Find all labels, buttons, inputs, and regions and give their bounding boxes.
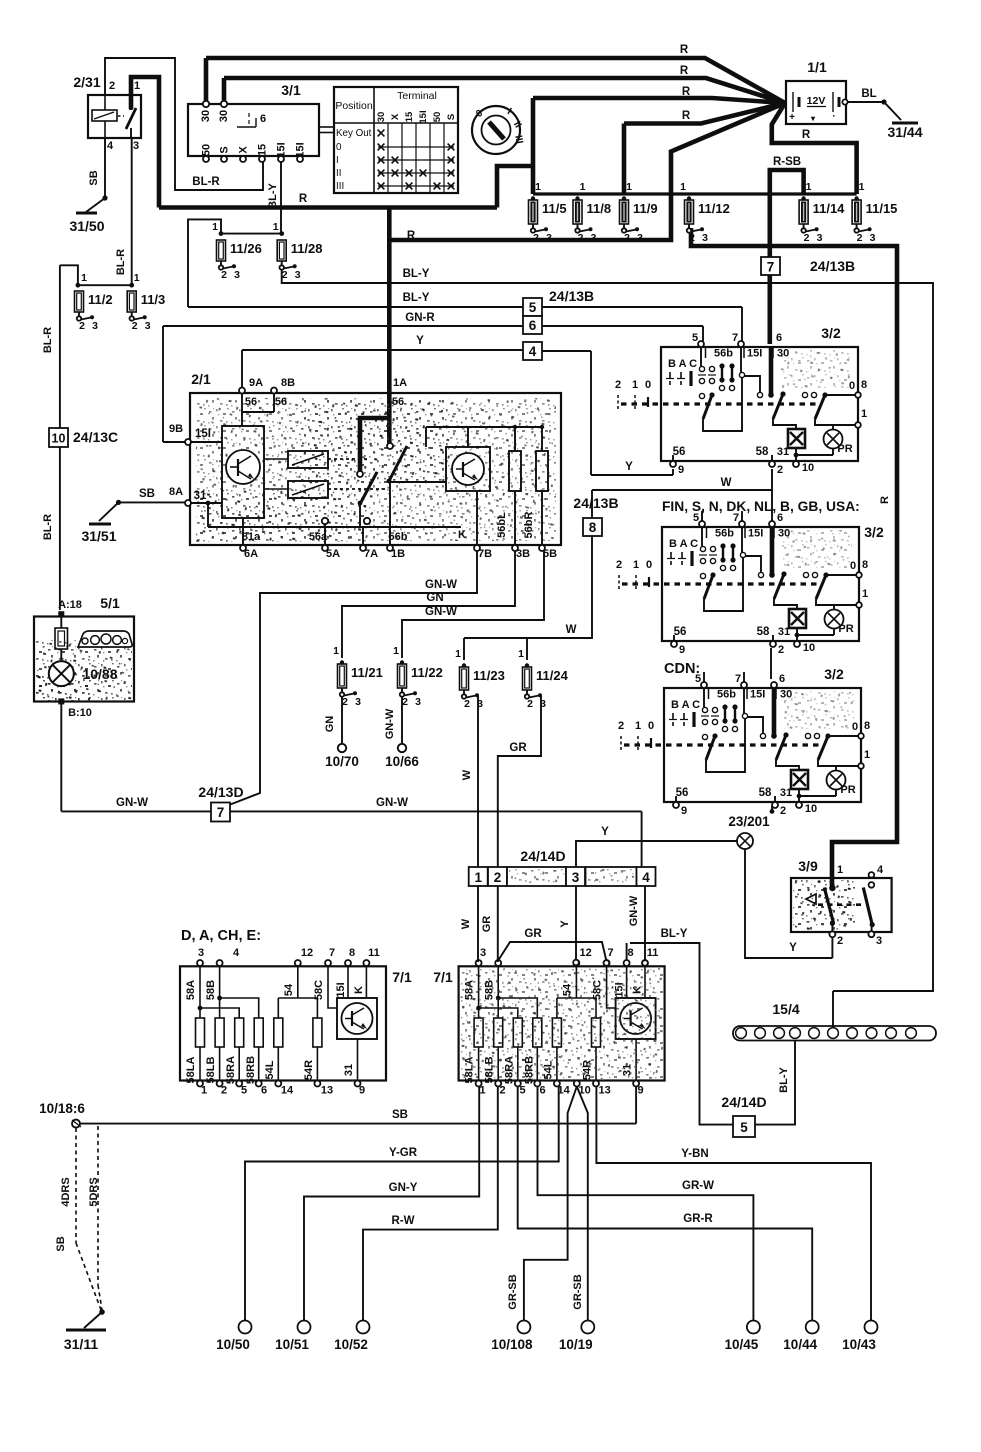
svg-text:GN-R: GN-R xyxy=(405,312,435,324)
svg-text:58: 58 xyxy=(759,787,772,799)
svg-text:3: 3 xyxy=(415,696,421,708)
svg-text:24/13B: 24/13B xyxy=(573,495,618,511)
svg-text:30: 30 xyxy=(200,110,212,122)
svg-text:14: 14 xyxy=(281,1085,294,1097)
svg-text:56bR: 56bR xyxy=(523,511,535,538)
svg-text:9: 9 xyxy=(679,644,685,656)
svg-text:3: 3 xyxy=(572,870,580,885)
svg-text:12V: 12V xyxy=(807,95,826,107)
svg-text:10/51: 10/51 xyxy=(275,1337,309,1352)
svg-text:GN: GN xyxy=(426,592,443,604)
svg-text:2: 2 xyxy=(79,320,85,332)
svg-text:GN-W: GN-W xyxy=(116,797,148,809)
svg-text:13: 13 xyxy=(321,1085,333,1097)
svg-text:31/11: 31/11 xyxy=(64,1336,98,1352)
svg-text:6: 6 xyxy=(261,1085,267,1097)
svg-text:10/19: 10/19 xyxy=(559,1337,593,1352)
svg-text:Y: Y xyxy=(559,920,571,928)
svg-text:2: 2 xyxy=(533,232,539,244)
svg-text:3: 3 xyxy=(145,320,151,332)
svg-text:1: 1 xyxy=(680,181,686,193)
svg-text:13: 13 xyxy=(598,1085,610,1097)
svg-text:BL-Y: BL-Y xyxy=(778,1067,790,1093)
svg-text:8A: 8A xyxy=(169,486,183,498)
svg-text:3/2: 3/2 xyxy=(864,524,884,540)
svg-text:58LA: 58LA xyxy=(185,1056,197,1083)
svg-text:2/1: 2/1 xyxy=(191,371,211,387)
svg-text:1: 1 xyxy=(333,645,339,657)
svg-text:GR-R: GR-R xyxy=(683,1213,713,1225)
svg-text:S: S xyxy=(446,114,457,120)
svg-text:4DRS: 4DRS xyxy=(60,1177,72,1206)
svg-text:GR-W: GR-W xyxy=(682,1180,714,1192)
svg-text:54R: 54R xyxy=(303,1060,315,1080)
svg-text:56b: 56b xyxy=(389,531,408,543)
svg-text:31: 31 xyxy=(778,626,790,638)
svg-text:15: 15 xyxy=(404,111,415,122)
svg-text:2: 2 xyxy=(527,698,533,710)
svg-text:11/14: 11/14 xyxy=(813,201,846,216)
svg-text:3: 3 xyxy=(355,696,361,708)
svg-text:5: 5 xyxy=(529,300,537,315)
svg-text:4: 4 xyxy=(642,870,650,885)
svg-text:11/5: 11/5 xyxy=(542,201,567,216)
svg-text:GR-SB: GR-SB xyxy=(572,1274,584,1310)
svg-text:1: 1 xyxy=(859,181,865,193)
svg-text:4: 4 xyxy=(877,864,884,876)
svg-text:2: 2 xyxy=(578,232,584,244)
svg-text:30: 30 xyxy=(376,112,387,123)
svg-text:BL-R: BL-R xyxy=(42,327,54,353)
svg-text:BL-R: BL-R xyxy=(192,176,220,188)
svg-text:56: 56 xyxy=(676,787,689,799)
svg-text:BL-R: BL-R xyxy=(42,514,54,540)
svg-text:1: 1 xyxy=(806,181,812,193)
svg-text:1: 1 xyxy=(455,648,461,660)
svg-text:R: R xyxy=(802,129,811,141)
svg-text:1: 1 xyxy=(201,1085,207,1097)
svg-text:2: 2 xyxy=(615,379,621,391)
svg-text:9: 9 xyxy=(359,1085,365,1097)
svg-text:3: 3 xyxy=(295,269,301,281)
svg-text:11: 11 xyxy=(368,947,380,959)
svg-text:4: 4 xyxy=(529,344,537,359)
svg-text:10/70: 10/70 xyxy=(325,754,359,769)
svg-text:BL-R: BL-R xyxy=(115,249,127,275)
svg-text:8: 8 xyxy=(589,520,597,535)
svg-text:GN-W: GN-W xyxy=(425,579,457,591)
svg-text:5DRS: 5DRS xyxy=(88,1177,100,1206)
svg-text:8: 8 xyxy=(862,559,868,571)
svg-text:5: 5 xyxy=(520,1085,526,1097)
svg-text:10/45: 10/45 xyxy=(725,1337,759,1352)
svg-text:1: 1 xyxy=(633,559,639,571)
svg-text:56: 56 xyxy=(275,396,287,408)
svg-text:23/201: 23/201 xyxy=(728,814,770,829)
svg-text:R-W: R-W xyxy=(392,1215,415,1227)
svg-text:A:18: A:18 xyxy=(58,599,82,611)
svg-text:K: K xyxy=(353,986,365,994)
svg-text:5: 5 xyxy=(692,332,698,344)
svg-text:6: 6 xyxy=(540,1085,546,1097)
svg-text:GR: GR xyxy=(481,916,493,933)
svg-text:8: 8 xyxy=(864,720,870,732)
svg-text:7: 7 xyxy=(217,805,225,820)
svg-text:·: · xyxy=(832,111,835,122)
svg-text:Y: Y xyxy=(601,826,609,838)
svg-text:15I: 15I xyxy=(418,110,429,123)
svg-text:W: W xyxy=(721,477,732,489)
svg-text:2: 2 xyxy=(494,870,502,885)
svg-text:10/52: 10/52 xyxy=(334,1337,368,1352)
svg-text:24/13D: 24/13D xyxy=(198,784,243,800)
svg-text:7: 7 xyxy=(735,673,741,685)
svg-text:11/2: 11/2 xyxy=(88,292,113,307)
svg-text:R: R xyxy=(682,110,691,122)
svg-text:56b: 56b xyxy=(717,689,736,701)
svg-text:1: 1 xyxy=(81,272,87,284)
svg-text:4: 4 xyxy=(107,140,114,152)
svg-text:1/1: 1/1 xyxy=(807,59,827,75)
svg-text:1: 1 xyxy=(134,80,140,92)
svg-text:10: 10 xyxy=(802,462,814,474)
svg-text:58B: 58B xyxy=(205,980,217,1000)
svg-text:GN-W: GN-W xyxy=(425,606,457,618)
svg-text:B A C: B A C xyxy=(671,699,700,711)
svg-text:11/21: 11/21 xyxy=(351,665,383,680)
svg-text:R-SB: R-SB xyxy=(773,156,801,168)
svg-text:3/9: 3/9 xyxy=(798,858,818,874)
svg-text:1B: 1B xyxy=(391,548,405,560)
svg-text:2: 2 xyxy=(780,805,786,817)
svg-text:9: 9 xyxy=(678,464,684,476)
svg-text:6: 6 xyxy=(776,332,782,344)
svg-text:Y-BN: Y-BN xyxy=(681,1148,708,1160)
svg-text:2: 2 xyxy=(777,464,783,476)
svg-text:7: 7 xyxy=(608,947,614,959)
svg-text:X: X xyxy=(390,113,401,120)
svg-text:R: R xyxy=(682,86,691,98)
svg-text:1: 1 xyxy=(535,181,541,193)
svg-text:50: 50 xyxy=(201,144,213,156)
svg-text:GN-Y: GN-Y xyxy=(389,1182,418,1194)
svg-text:2: 2 xyxy=(132,320,138,332)
svg-text:3: 3 xyxy=(480,947,486,959)
svg-text:3: 3 xyxy=(702,232,708,244)
svg-text:Y: Y xyxy=(789,942,797,954)
svg-text:11/12: 11/12 xyxy=(698,201,730,216)
svg-text:58LB: 58LB xyxy=(205,1056,217,1083)
svg-text:3: 3 xyxy=(876,935,882,947)
svg-text:GN-W: GN-W xyxy=(384,708,396,739)
svg-text:24/13B: 24/13B xyxy=(549,288,594,304)
svg-text:PR: PR xyxy=(837,443,852,455)
svg-text:56a: 56a xyxy=(309,531,328,543)
svg-text:56b: 56b xyxy=(715,528,734,540)
svg-text:31: 31 xyxy=(777,446,789,458)
svg-text:SB: SB xyxy=(55,1236,67,1251)
svg-text:3: 3 xyxy=(870,232,876,244)
svg-text:11/24: 11/24 xyxy=(536,668,569,683)
svg-text:6: 6 xyxy=(260,113,266,125)
svg-text:GR: GR xyxy=(524,928,542,940)
svg-text:0: 0 xyxy=(648,720,654,732)
svg-text:58C: 58C xyxy=(313,980,325,1000)
svg-text:10/44: 10/44 xyxy=(783,1337,817,1352)
svg-text:2: 2 xyxy=(689,232,695,244)
svg-text:3: 3 xyxy=(637,232,643,244)
svg-text:B:10: B:10 xyxy=(68,707,92,719)
svg-text:R: R xyxy=(680,65,689,77)
svg-text:B A C: B A C xyxy=(668,358,697,370)
svg-text:8: 8 xyxy=(349,947,355,959)
svg-text:31/44: 31/44 xyxy=(887,124,922,140)
svg-text:10: 10 xyxy=(803,642,815,654)
svg-text:56: 56 xyxy=(392,396,404,408)
svg-text:SB: SB xyxy=(88,170,100,185)
svg-text:2: 2 xyxy=(282,269,288,281)
svg-text:R: R xyxy=(407,230,416,242)
svg-text:10/88: 10/88 xyxy=(82,666,117,682)
svg-text:0: 0 xyxy=(646,559,652,571)
svg-text:8: 8 xyxy=(628,947,634,959)
svg-text:11/8: 11/8 xyxy=(587,201,612,216)
svg-text:3: 3 xyxy=(817,232,823,244)
svg-text:12: 12 xyxy=(301,947,313,959)
svg-text:1: 1 xyxy=(635,720,641,732)
svg-text:1: 1 xyxy=(632,379,638,391)
svg-text:9: 9 xyxy=(638,1085,644,1097)
svg-text:5/1: 5/1 xyxy=(100,595,120,611)
svg-text:R: R xyxy=(299,193,308,205)
svg-text:2: 2 xyxy=(618,720,624,732)
svg-text:15I: 15I xyxy=(335,982,347,997)
svg-text:56: 56 xyxy=(245,396,257,408)
svg-text:3/1: 3/1 xyxy=(281,82,301,98)
svg-text:24/13B: 24/13B xyxy=(810,258,855,274)
svg-text:31/50: 31/50 xyxy=(69,218,104,234)
svg-text:2/31: 2/31 xyxy=(73,74,100,90)
svg-text:58A: 58A xyxy=(185,980,197,1000)
svg-text:7: 7 xyxy=(767,260,775,275)
svg-text:3: 3 xyxy=(92,320,98,332)
svg-text:11/15: 11/15 xyxy=(866,201,898,216)
svg-text:Position: Position xyxy=(335,100,373,112)
svg-text:2: 2 xyxy=(402,696,408,708)
svg-text:11/3: 11/3 xyxy=(141,292,166,307)
svg-text:9B: 9B xyxy=(169,423,183,435)
svg-text:10: 10 xyxy=(805,803,817,815)
svg-text:3: 3 xyxy=(546,232,552,244)
svg-text:11/23: 11/23 xyxy=(473,668,505,683)
svg-text:81a: 81a xyxy=(242,531,261,543)
svg-text:4: 4 xyxy=(233,947,240,959)
svg-text:11/26: 11/26 xyxy=(230,241,262,256)
svg-text:Y: Y xyxy=(416,335,424,347)
svg-text:2: 2 xyxy=(342,696,348,708)
svg-text:X: X xyxy=(238,146,250,154)
svg-text:8: 8 xyxy=(861,379,867,391)
svg-text:15: 15 xyxy=(257,144,269,156)
svg-text:SB: SB xyxy=(392,1109,408,1121)
svg-text:15I: 15I xyxy=(750,689,765,701)
svg-text:10/108: 10/108 xyxy=(491,1337,533,1352)
svg-text:S: S xyxy=(219,146,231,153)
svg-text:W: W xyxy=(461,769,473,780)
svg-text:10: 10 xyxy=(52,432,66,446)
svg-text:24/13C: 24/13C xyxy=(73,429,118,445)
svg-text:Y-GR: Y-GR xyxy=(389,1147,418,1159)
svg-text:10/50: 10/50 xyxy=(216,1337,250,1352)
svg-text:2: 2 xyxy=(624,232,630,244)
svg-text:15I: 15I xyxy=(748,528,763,540)
svg-text:3B: 3B xyxy=(516,548,530,560)
svg-text:BL-Y: BL-Y xyxy=(403,268,430,280)
svg-text:31: 31 xyxy=(343,1064,355,1076)
svg-text:BL-Y: BL-Y xyxy=(661,928,688,940)
svg-text:I: I xyxy=(336,155,339,166)
svg-text:2: 2 xyxy=(616,559,622,571)
svg-text:+: + xyxy=(789,112,795,123)
svg-text:D, A, CH, E:: D, A, CH, E: xyxy=(181,928,261,944)
svg-text:7/1: 7/1 xyxy=(433,969,453,985)
svg-text:BL: BL xyxy=(861,88,876,100)
svg-text:1: 1 xyxy=(480,1085,486,1097)
svg-text:3: 3 xyxy=(591,232,597,244)
svg-text:54: 54 xyxy=(283,983,295,996)
svg-text:30: 30 xyxy=(218,110,230,122)
svg-text:7B: 7B xyxy=(478,548,492,560)
svg-text:2: 2 xyxy=(464,698,470,710)
svg-text:BL-Y: BL-Y xyxy=(267,183,279,209)
svg-text:5A: 5A xyxy=(326,548,340,560)
svg-text:11/9: 11/9 xyxy=(633,201,658,216)
svg-text:5: 5 xyxy=(241,1085,247,1097)
svg-text:W: W xyxy=(566,624,577,636)
svg-text:Y: Y xyxy=(625,461,633,473)
svg-text:24/14D: 24/14D xyxy=(721,1094,766,1110)
svg-text:56: 56 xyxy=(673,446,686,458)
svg-text:2: 2 xyxy=(857,232,863,244)
svg-text:58: 58 xyxy=(756,446,769,458)
svg-text:B A C: B A C xyxy=(669,538,698,550)
svg-text:Terminal: Terminal xyxy=(397,90,437,102)
svg-text:3: 3 xyxy=(234,269,240,281)
svg-text:GN-W: GN-W xyxy=(376,797,408,809)
svg-text:5: 5 xyxy=(740,1120,748,1135)
svg-text:1: 1 xyxy=(273,221,279,233)
svg-text:2: 2 xyxy=(109,80,115,92)
svg-text:6A: 6A xyxy=(244,548,258,560)
svg-text:0: 0 xyxy=(645,379,651,391)
svg-text:1: 1 xyxy=(134,272,140,284)
svg-text:2: 2 xyxy=(804,232,810,244)
svg-text:31: 31 xyxy=(780,787,792,799)
svg-text:12: 12 xyxy=(579,947,591,959)
svg-text:FIN, S, N, DK, NL, B, GB, USA:: FIN, S, N, DK, NL, B, GB, USA: xyxy=(662,499,860,514)
svg-text:SB: SB xyxy=(139,488,155,500)
svg-text:58RB: 58RB xyxy=(245,1056,257,1084)
svg-text:6: 6 xyxy=(779,673,785,685)
svg-text:11/28: 11/28 xyxy=(291,241,323,256)
svg-text:1: 1 xyxy=(474,870,482,885)
svg-text:54L: 54L xyxy=(264,1060,276,1079)
svg-text:10/66: 10/66 xyxy=(385,754,419,769)
svg-text:1: 1 xyxy=(861,408,867,420)
svg-text:3: 3 xyxy=(198,947,204,959)
svg-text:7/1: 7/1 xyxy=(392,969,412,985)
svg-text:0: 0 xyxy=(336,142,342,153)
svg-text:2: 2 xyxy=(221,269,227,281)
svg-text:BL-Y: BL-Y xyxy=(403,292,430,304)
svg-text:GN: GN xyxy=(324,716,336,733)
svg-text:10/43: 10/43 xyxy=(842,1337,876,1352)
svg-text:II: II xyxy=(336,168,341,179)
svg-text:GN-W: GN-W xyxy=(628,895,640,926)
svg-text:10/18:6: 10/18:6 xyxy=(39,1101,85,1116)
svg-text:15/4: 15/4 xyxy=(772,1001,799,1017)
svg-text:1: 1 xyxy=(864,749,870,761)
svg-text:5B: 5B xyxy=(543,548,557,560)
svg-text:1: 1 xyxy=(837,864,843,876)
svg-text:1: 1 xyxy=(626,181,632,193)
svg-text:7: 7 xyxy=(329,947,335,959)
svg-text:W: W xyxy=(460,918,472,929)
svg-text:GR: GR xyxy=(509,742,527,754)
svg-text:GR-SB: GR-SB xyxy=(507,1274,519,1310)
svg-text:3/2: 3/2 xyxy=(821,325,841,341)
svg-text:1A: 1A xyxy=(393,377,407,389)
svg-text:1: 1 xyxy=(862,588,868,600)
svg-text:9: 9 xyxy=(681,805,687,817)
svg-text:56bL: 56bL xyxy=(496,512,508,538)
svg-text:3/2: 3/2 xyxy=(824,666,844,682)
svg-text:7: 7 xyxy=(732,332,738,344)
svg-text:31: 31 xyxy=(194,490,207,502)
svg-text:R: R xyxy=(680,44,689,56)
svg-text:31/51: 31/51 xyxy=(81,528,116,544)
svg-text:K: K xyxy=(458,529,466,541)
svg-text:CDN:: CDN: xyxy=(664,661,700,677)
svg-text:58: 58 xyxy=(757,626,770,638)
svg-text:1: 1 xyxy=(393,645,399,657)
svg-text:2: 2 xyxy=(837,935,843,947)
svg-text:III: III xyxy=(336,181,344,192)
svg-text:9A: 9A xyxy=(249,377,263,389)
svg-text:PR: PR xyxy=(840,784,855,796)
svg-text:Key Out: Key Out xyxy=(336,128,372,139)
svg-text:58RA: 58RA xyxy=(225,1056,237,1084)
svg-text:2: 2 xyxy=(500,1085,506,1097)
svg-text:2: 2 xyxy=(221,1085,227,1097)
svg-text:56: 56 xyxy=(674,626,687,638)
svg-text:PR: PR xyxy=(838,623,853,635)
svg-text:2: 2 xyxy=(778,644,784,656)
svg-text:11/22: 11/22 xyxy=(411,665,443,680)
svg-text:7A: 7A xyxy=(364,548,378,560)
svg-text:50: 50 xyxy=(432,112,443,123)
svg-text:15I: 15I xyxy=(747,348,762,360)
svg-text:3: 3 xyxy=(133,140,139,152)
svg-text:24/14D: 24/14D xyxy=(520,848,565,864)
svg-text:1: 1 xyxy=(518,648,524,660)
svg-text:15I: 15I xyxy=(195,428,211,440)
svg-text:6: 6 xyxy=(529,318,537,333)
svg-text:1: 1 xyxy=(580,181,586,193)
svg-text:R: R xyxy=(879,496,891,504)
svg-text:1: 1 xyxy=(212,221,218,233)
svg-text:56b: 56b xyxy=(714,348,733,360)
